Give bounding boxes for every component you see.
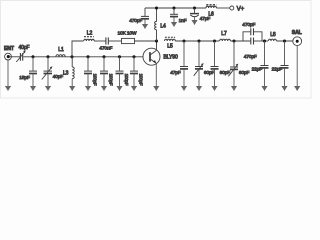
ground (C10) — [214, 69, 216, 90]
trimmer capacitor C3 40pF to ground — [42, 57, 63, 80]
trimmer capacitor C1 40pF (series input) — [16, 45, 29, 62]
svg-text:100pF: 100pF — [138, 74, 143, 86]
transistor Q1 BLY90 — [143, 48, 178, 65]
svg-text:100pF: 100pF — [92, 74, 97, 86]
wire R1 to collector node — [135, 40, 157, 42]
capacitor C2 15pF to ground — [19, 57, 37, 81]
ground (C11) — [233, 70, 235, 91]
capacitor C18 100pF to ground — [116, 57, 129, 86]
capacitor C6 1nF (rail bypass) — [170, 8, 187, 24]
ground (C15) — [284, 68, 286, 90]
connector SAL (output) — [292, 30, 302, 46]
svg-text:L7: L7 — [221, 31, 227, 37]
node (collector / L4 / L5 / R1) — [155, 39, 158, 42]
ground (C19) — [133, 74, 135, 91]
inductor L5 (iron core, collector) — [165, 37, 176, 49]
wire top rail — [145, 7, 206, 9]
ground (C9) — [198, 69, 200, 90]
svg-text:47pF: 47pF — [170, 70, 181, 76]
capacitor C4 470nF (series) — [99, 37, 112, 51]
inductor L8 — [268, 32, 276, 41]
svg-text:L2: L2 — [87, 31, 93, 37]
svg-text:ENT: ENT — [4, 46, 15, 52]
node (output line / C11) — [232, 39, 235, 42]
node (input line / C17) — [102, 55, 105, 58]
wire emitter drop — [155, 63, 157, 91]
wire L7 to parallel caps — [230, 40, 250, 42]
wire L6 to V+ terminal — [216, 7, 229, 9]
inductor L1 — [56, 47, 65, 57]
svg-text:100pF: 100pF — [108, 74, 113, 86]
capacitor C19 100pF to ground — [130, 57, 143, 86]
node (output line / C15) — [283, 39, 286, 42]
node (output line / C14) — [263, 39, 266, 42]
svg-text:L6: L6 — [208, 12, 214, 18]
svg-text:22pF: 22pF — [252, 67, 263, 73]
wire collector riser — [156, 41, 158, 50]
wire ENT to C1 — [10, 56, 20, 58]
svg-text:10K 10W: 10K 10W — [118, 31, 137, 37]
svg-text:BLY90: BLY90 — [163, 54, 178, 60]
svg-text:60pF: 60pF — [204, 70, 215, 76]
ground (C6) — [173, 17, 175, 27]
ground (C17) — [103, 74, 105, 91]
wire output line L5 to L7 — [175, 40, 219, 42]
ground (ENT shell) — [7, 60, 9, 91]
ground (SAL shell) — [296, 45, 298, 90]
ground (C2) — [32, 74, 34, 91]
ground (C8) — [183, 69, 185, 90]
node (rail / L4) — [155, 6, 158, 9]
wire L2 to C4 — [94, 40, 106, 42]
trimmer capacitor C9 60pF to ground — [194, 41, 215, 76]
svg-text:22pF: 22pF — [272, 67, 283, 73]
wire parallel-cap loop — [243, 32, 262, 41]
svg-text:V+: V+ — [237, 6, 245, 13]
capacitor C15 22pF to ground — [272, 41, 289, 73]
capacitor C12 470pF (upper of series pair) — [242, 22, 255, 35]
capacitor C5 470pF (rail bypass) — [129, 8, 149, 24]
node (input line / C16) — [86, 55, 89, 58]
wire L8 to SAL — [276, 40, 293, 42]
svg-text:470pF: 470pF — [242, 22, 255, 28]
wire C4 to R1 — [109, 40, 122, 42]
ground (C14) — [264, 68, 266, 90]
inductor L4 (choke to rail) — [155, 21, 166, 29]
capacitor C13 470pF (lower of series pair) — [244, 38, 257, 61]
wire L4 to top rail — [156, 8, 158, 22]
svg-text:15pF: 15pF — [19, 75, 30, 81]
ground (C18) — [119, 74, 121, 91]
svg-text:L3: L3 — [63, 71, 69, 77]
svg-text:60pF: 60pF — [239, 70, 250, 76]
node (input line / C2) — [31, 55, 34, 58]
wire caps to L8 — [254, 40, 268, 42]
capacitor C8 47pF to ground — [170, 41, 188, 76]
inductor L2 (iron core) — [84, 31, 94, 41]
resistor R1 10K 10W — [118, 31, 137, 44]
svg-text:470pF: 470pF — [244, 54, 257, 60]
svg-text:40pF: 40pF — [53, 74, 64, 80]
wire L4 lower lead — [156, 30, 158, 41]
node (input line / L3 / feedback branch) — [70, 55, 73, 58]
ground (C3) — [47, 74, 49, 91]
node (rail / C7) — [193, 6, 196, 9]
inductor L7 — [220, 31, 231, 41]
node (input line / C18) — [118, 55, 121, 58]
svg-text:100pF: 100pF — [124, 74, 129, 86]
capacitor C17 100pF to ground — [100, 57, 113, 86]
svg-text:1nF: 1nF — [179, 18, 187, 24]
terminal V+ — [230, 6, 245, 13]
ground (C5) — [144, 19, 146, 28]
ground (C7) — [194, 17, 196, 24]
node (output line / C9) — [197, 39, 200, 42]
svg-text:40pF: 40pF — [19, 45, 30, 51]
capacitor C14 22pF to ground — [252, 41, 269, 73]
svg-text:470pF: 470pF — [129, 18, 142, 24]
capacitor C16 100pF to ground — [84, 57, 97, 86]
node (output line / C10) — [213, 39, 216, 42]
ground (C16) — [87, 74, 89, 91]
svg-text:SAL: SAL — [292, 30, 302, 36]
capacitor C10 60pF to ground — [211, 41, 231, 76]
wire feedback branch riser — [72, 41, 84, 57]
ground (L3) — [71, 79, 73, 91]
connector ENT (input) — [4, 46, 15, 60]
wire L3 drop — [71, 57, 73, 67]
node (input line / C19) — [132, 55, 135, 58]
node (output line / C8) — [182, 39, 185, 42]
wire input line — [23, 56, 143, 58]
inductor L6 (iron core, supply feed) — [206, 5, 216, 18]
node (input line / C3) — [46, 55, 49, 58]
trimmer capacitor C11 60pF to ground — [228, 41, 249, 76]
svg-text:L4: L4 — [160, 23, 166, 29]
node (rail / C6) — [172, 6, 175, 9]
svg-text:L5: L5 — [167, 44, 173, 50]
svg-text:470nF: 470nF — [99, 46, 112, 52]
inductor L3 to ground — [63, 67, 74, 79]
capacitor C7 47uF electrolytic (rail bypass) — [190, 8, 210, 22]
svg-text:L1: L1 — [58, 47, 64, 53]
svg-text:L8: L8 — [270, 32, 276, 38]
